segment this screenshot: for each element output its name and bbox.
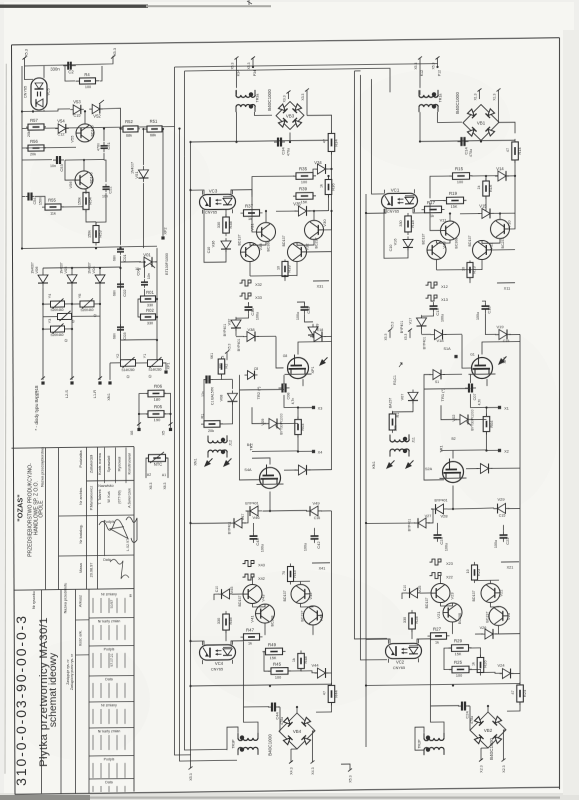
svg-text:V34: V34 — [314, 160, 322, 165]
capacitor C24 — [458, 705, 462, 707]
diode V54 — [55, 127, 69, 129]
svg-text:C03: C03 — [122, 332, 127, 340]
svg-text:V26: V26 — [480, 626, 487, 630]
svg-text:S20K460: S20K460 — [50, 333, 63, 337]
svg-text:X4.3: X4.3 — [311, 767, 315, 774]
svg-text:BYP401: BYP401 — [245, 501, 258, 505]
svg-text:C18: C18 — [317, 328, 324, 332]
svg-text:V06: V06 — [34, 266, 39, 274]
svg-text:R55: R55 — [48, 197, 56, 202]
svg-text:①: ① — [129, 593, 133, 598]
svg-text:BYP401: BYP401 — [423, 337, 427, 350]
wires transistor cluster middle — [265, 211, 267, 223]
terminal X3.3 a — [287, 90, 291, 93]
svg-text:V47: V47 — [241, 514, 245, 521]
svg-text:J12: J12 — [229, 440, 233, 446]
svg-text:Nr zmiany: Nr zmiany — [101, 592, 117, 596]
svg-text:BYP401: BYP401 — [223, 324, 227, 337]
title block name-grid verticals — [104, 448, 106, 484]
diode V17 BYP401 — [421, 315, 423, 329]
transistor V33 BC308 — [241, 242, 260, 261]
svg-text:V22: V22 — [499, 589, 504, 597]
svg-text:L2-S: L2-S — [65, 390, 69, 399]
capacitor C30 — [248, 303, 250, 307]
svg-text:V15: V15 — [479, 203, 487, 208]
svg-text:R14: R14 — [517, 147, 522, 155]
capacitor C34 — [274, 141, 278, 143]
svg-text:R38: R38 — [228, 221, 233, 229]
svg-text:①: ① — [64, 339, 68, 343]
saturable core X22 — [430, 572, 442, 578]
svg-text:X1.3: X1.3 — [493, 93, 497, 100]
transistor V55 BD140 — [76, 124, 94, 142]
svg-text:V21: V21 — [436, 611, 441, 619]
svg-text:10: 10 — [277, 266, 281, 270]
varistor Y3 S20K460 — [51, 326, 65, 332]
svg-text:Nr katalog.: Nr katalog. — [78, 524, 83, 543]
svg-text:C2: C2 — [68, 69, 74, 74]
svg-text:C23: C23 — [439, 537, 444, 545]
svg-text:C8: C8 — [254, 367, 258, 371]
svg-text:C16: C16 — [314, 516, 321, 520]
svg-text:C01: C01 — [122, 254, 127, 262]
svg-text:V20: V20 — [506, 612, 511, 620]
resistor R56 — [26, 147, 46, 149]
thyristor V09 BYT30PI1000 — [264, 422, 282, 424]
svg-text:S1A: S1A — [443, 347, 451, 351]
svg-text:V27: V27 — [425, 514, 432, 518]
svg-text:X5.3: X5.3 — [25, 49, 29, 57]
svg-text:R17: R17 — [427, 200, 436, 205]
svg-text:V17: V17 — [409, 318, 413, 325]
wire top bus 2 — [185, 68, 391, 95]
svg-text:R35: R35 — [299, 166, 308, 171]
svg-text:X5.3: X5.3 — [247, 62, 251, 69]
terminal L3-T — [41, 381, 44, 384]
svg-text:470u: 470u — [470, 716, 474, 724]
svg-text:X43: X43 — [258, 563, 265, 567]
svg-text:S4A: S4A — [244, 468, 252, 472]
capacitor C52 — [105, 184, 107, 187]
terminal K5.3 stub — [225, 351, 229, 354]
svg-text:X3: X3 — [318, 406, 323, 410]
svg-text:15K: 15K — [455, 652, 462, 656]
svg-text:V35: V35 — [293, 201, 301, 206]
diode V35 — [295, 210, 311, 212]
svg-text:100u: 100u — [261, 544, 265, 552]
svg-text:BD137: BD137 — [238, 596, 242, 607]
svg-text:1k: 1k — [292, 658, 296, 662]
svg-text:X1.3: X1.3 — [474, 93, 478, 100]
svg-text:V05: V05 — [63, 266, 68, 274]
diode V27 BYP401 — [414, 522, 430, 524]
wire rails middle-right gap — [355, 71, 388, 639]
resistor R48 — [300, 650, 302, 671]
svg-text:330: 330 — [217, 222, 221, 228]
wires VB1 out — [499, 122, 516, 133]
svg-text:1k: 1k — [248, 217, 252, 221]
svg-text:Ilość ark.: Ilość ark. — [78, 630, 83, 646]
svg-text:C24: C24 — [465, 711, 470, 719]
svg-text:330n: 330n — [50, 66, 60, 71]
resistor R34 — [331, 130, 333, 154]
inductor J12 — [208, 440, 227, 443]
title block signatures — [99, 519, 128, 539]
varistor Y6 S20K460 — [80, 301, 94, 307]
svg-text:R18: R18 — [410, 220, 415, 228]
svg-text:C1 BA157R: C1 BA157R — [211, 386, 215, 405]
svg-text:①: ① — [148, 375, 152, 379]
svg-text:BD137: BD137 — [282, 235, 286, 246]
svg-text:C12: C12 — [487, 306, 492, 314]
diode V33b — [310, 335, 326, 337]
connector arrows KN1 right — [384, 458, 396, 471]
terminal X2.3 a — [480, 748, 482, 760]
svg-text:V37: V37 — [228, 319, 232, 326]
transistor V12 BD137 — [473, 240, 492, 259]
svg-text:R47: R47 — [246, 627, 255, 632]
svg-text:C13: C13 — [435, 308, 440, 316]
resistor R36 — [328, 176, 330, 197]
svg-text:V44: V44 — [311, 662, 319, 667]
svg-text:R05: R05 — [154, 404, 163, 409]
svg-text:150k: 150k — [78, 197, 82, 205]
transistor V42 BD137 — [291, 584, 310, 603]
svg-text:XP2: XP2 — [164, 227, 168, 234]
diode V37 BYP401 — [235, 317, 237, 331]
svg-text:100u: 100u — [445, 543, 449, 551]
optocoupler VC3 — [200, 194, 236, 209]
svg-text:BD140: BD140 — [90, 172, 94, 183]
terminal XP2 — [162, 129, 164, 236]
svg-text:X5.3: X5.3 — [189, 773, 193, 780]
svg-text:K12: K12 — [420, 70, 424, 76]
svg-text:V53: V53 — [73, 99, 81, 104]
svg-text:G1: G1 — [470, 352, 475, 356]
terminal X5.3 P34 — [251, 56, 255, 59]
thyristor V01 BT130F/1000 — [139, 261, 157, 263]
svg-text:V55: V55 — [70, 135, 75, 143]
terminal X5 — [169, 428, 172, 431]
resistor R14 — [514, 139, 516, 163]
resistor R27 — [428, 635, 450, 637]
svg-text:X5.3: X5.3 — [113, 48, 117, 56]
svg-text:VC3: VC3 — [209, 188, 218, 193]
diode V53 — [70, 108, 84, 110]
title block outline — [12, 447, 135, 449]
svg-text:V13: V13 — [442, 241, 447, 249]
svg-text:1k: 1k — [248, 641, 252, 645]
resistor R01 — [139, 298, 158, 300]
svg-text:R39: R39 — [299, 186, 308, 191]
svg-text:BC237: BC237 — [315, 238, 319, 249]
svg-text:R51: R51 — [150, 119, 158, 124]
diode V28 BYP401 — [432, 508, 448, 510]
svg-text:BD137: BD137 — [425, 597, 429, 608]
svg-text:Nr karty zmian: Nr karty zmian — [98, 619, 121, 623]
capacitor C01 — [120, 246, 122, 249]
transistor V11 BC308 — [441, 221, 460, 240]
svg-text:V30: V30 — [322, 219, 327, 227]
svg-text:C53: C53 — [59, 164, 64, 172]
svg-text:X23: X23 — [446, 562, 453, 566]
diode V52 — [89, 108, 103, 110]
svg-text:Nr archiw.: Nr archiw. — [78, 487, 83, 505]
svg-text:Data: Data — [105, 677, 112, 681]
svg-text:10: 10 — [462, 267, 466, 271]
svg-text:R43: R43 — [292, 570, 297, 578]
svg-text:20k: 20k — [30, 152, 36, 156]
terminal X2 — [498, 449, 501, 452]
svg-text:VC4: VC4 — [215, 661, 224, 666]
transistor V41 BC308 — [256, 604, 275, 623]
svg-text:330: 330 — [147, 303, 153, 307]
wires varistor row 2 — [110, 362, 121, 364]
transformer TR1a — [419, 95, 438, 98]
svg-text:R44: R44 — [334, 690, 339, 698]
diode V45 — [219, 593, 233, 595]
svg-text:97.07.21: 97.07.21 — [110, 653, 114, 666]
svg-text:1k: 1k — [472, 662, 476, 666]
svg-text:R03: R03 — [301, 424, 305, 431]
svg-text:100: 100 — [301, 180, 307, 184]
svg-text:Sprawdził: Sprawdził — [107, 456, 111, 473]
resistor R25 — [449, 668, 472, 670]
resistor R18 — [407, 213, 409, 235]
svg-text:C08: C08 — [287, 393, 291, 400]
svg-text:R45: R45 — [273, 661, 282, 666]
transistor V30 BC237 — [305, 220, 324, 239]
svg-text:R24: R24 — [522, 689, 527, 697]
svg-text:X5.3: X5.3 — [414, 62, 418, 69]
svg-text:C22: C22 — [505, 537, 510, 545]
transistor V22 BD137 — [481, 583, 500, 602]
resistor R13 — [469, 261, 471, 280]
transformer TR2P — [424, 738, 444, 741]
svg-text:Data: Data — [103, 558, 111, 562]
resistor R02 — [139, 316, 158, 318]
terminal X5.3 bottom middle — [190, 766, 192, 768]
svg-text:C43: C43 — [255, 538, 260, 546]
svg-text:VB2: VB2 — [484, 728, 493, 733]
svg-text:VB1: VB1 — [477, 120, 486, 125]
svg-text:L3-T: L3-T — [36, 389, 40, 398]
capacitor C44 — [268, 706, 272, 708]
svg-text:X3.3: X3.3 — [283, 95, 287, 102]
bridge rectifier VB4 — [279, 713, 315, 749]
terminal X6 — [137, 428, 140, 431]
svg-text:V32: V32 — [305, 243, 310, 251]
svg-text:Kontr. norma: Kontr. norma — [98, 452, 102, 475]
terminal X21 — [501, 561, 519, 563]
svg-text:S14K280: S14K280 — [148, 368, 161, 372]
transistor V43 BD137 — [243, 584, 262, 603]
svg-text:X42: X42 — [258, 577, 265, 581]
svg-text:10: 10 — [466, 569, 470, 573]
svg-text:V28: V28 — [440, 513, 448, 518]
svg-text:C10: C10 — [389, 245, 393, 252]
svg-text:NTC: NTC — [154, 461, 163, 466]
svg-text:Arkusz: Arkusz — [78, 595, 83, 607]
svg-text:(077-90): (077-90) — [118, 490, 122, 504]
svg-text:47: 47 — [506, 148, 510, 152]
title block verticals section B — [41, 590, 43, 794]
svg-text:XP1: XP1 — [311, 366, 315, 373]
svg-text:V11: V11 — [440, 217, 448, 222]
svg-text:C07: C07 — [473, 393, 477, 400]
svg-text:100u: 100u — [296, 312, 300, 320]
svg-text:C02: C02 — [122, 289, 127, 297]
terminal X1.3 b — [497, 88, 501, 91]
svg-text:P34: P34 — [253, 70, 257, 76]
resistor R2 middle — [221, 357, 223, 376]
svg-text:X6.3: X6.3 — [163, 482, 167, 489]
svg-text:20k: 20k — [208, 429, 214, 433]
svg-text:R02: R02 — [146, 308, 154, 313]
svg-text:TR2P: TR2P — [418, 739, 422, 749]
svg-text:VB3: VB3 — [286, 113, 295, 118]
svg-text:68n: 68n — [113, 255, 117, 261]
svg-text:S14K280: S14K280 — [121, 368, 134, 372]
svg-text:R29: R29 — [454, 638, 463, 643]
svg-text:Zatwierdził: Zatwierdził — [90, 455, 94, 473]
varistor Y1 S14K280 — [148, 360, 163, 367]
resistor R29 — [449, 647, 472, 649]
varistor Y5 S20K460 — [58, 313, 72, 319]
diode V18 BYP401 — [431, 333, 447, 335]
svg-text:100: 100 — [219, 363, 223, 369]
svg-text:20k: 20k — [27, 131, 31, 137]
svg-text:V19: V19 — [496, 324, 504, 329]
svg-text:X32: X32 — [255, 283, 262, 287]
svg-text:10n: 10n — [102, 194, 108, 198]
MOSFET XP1 right — [472, 357, 493, 378]
resistor R26 — [480, 655, 482, 676]
svg-text:V41: V41 — [250, 615, 255, 623]
svg-text:V49: V49 — [312, 500, 320, 505]
svg-text:C04: C04 — [136, 268, 141, 276]
diode V39 — [312, 324, 314, 338]
svg-text:R01: R01 — [146, 290, 154, 295]
transistor V21 BC308 — [443, 603, 462, 622]
diode V19 — [495, 333, 511, 335]
svg-text:100: 100 — [275, 675, 281, 679]
svg-text:X6: X6 — [130, 431, 134, 436]
optocoupler VC1 — [382, 193, 418, 208]
svg-text:V09: V09 — [260, 418, 265, 426]
svg-text:V45: V45 — [230, 587, 234, 594]
terminal L1-R — [98, 381, 101, 384]
wires varistor network — [42, 287, 44, 380]
svg-text:BC237: BC237 — [501, 237, 505, 248]
terminal X5.3 left-top second — [111, 55, 115, 58]
sheet frame — [12, 38, 560, 45]
svg-text:X11: X11 — [504, 286, 510, 290]
svg-text:V33: V33 — [258, 243, 263, 251]
resistor R1 right 20k — [392, 411, 394, 433]
connector XN1 left — [108, 381, 111, 384]
resistor R17 — [422, 208, 445, 210]
svg-text:S2A: S2A — [425, 467, 433, 471]
svg-text:TR3P: TR3P — [232, 739, 236, 749]
diode V26 — [481, 633, 497, 635]
svg-text:CNY65: CNY65 — [211, 667, 223, 671]
svg-text:V10: V10 — [507, 220, 512, 228]
svg-text:B40C1000: B40C1000 — [489, 738, 494, 760]
bridge rectifier VB1 — [463, 104, 499, 140]
resistor R57 — [26, 126, 46, 128]
svg-text:Zastąpiony przez rys. nr: Zastąpiony przez rys. nr — [70, 653, 74, 690]
diode V24 — [500, 672, 514, 674]
wire rail 3 left of middle column — [185, 155, 228, 750]
capacitor C42 — [314, 532, 316, 536]
svg-text:P12: P12 — [438, 70, 442, 76]
svg-text:68n: 68n — [113, 333, 117, 339]
svg-text:R4: R4 — [84, 72, 90, 77]
MOSFET S4A middle bottom — [260, 467, 281, 488]
svg-text:20k: 20k — [394, 425, 398, 431]
svg-text:R04: R04 — [490, 421, 494, 428]
capacitor C14 — [458, 141, 462, 143]
wires right lower middle — [470, 648, 481, 658]
resistor R44 — [331, 682, 333, 705]
svg-text:P.Maniakiewicz: P.Maniakiewicz — [90, 486, 94, 511]
svg-text:V51: V51 — [134, 171, 139, 179]
svg-text:47: 47 — [511, 690, 515, 694]
svg-text:XN1: XN1 — [107, 393, 111, 400]
resistor R24 — [519, 682, 521, 705]
connector arrows XN1 middle — [202, 456, 214, 469]
resistor R52 — [121, 128, 140, 130]
svg-text:68n: 68n — [113, 290, 117, 296]
diode V46 BYP401 — [246, 510, 262, 512]
svg-text:15K: 15K — [301, 200, 308, 204]
svg-text:R56: R56 — [30, 139, 38, 144]
terminal X5.3 K34 — [235, 56, 239, 59]
resistor R35 — [293, 175, 316, 177]
svg-text:BD140: BD140 — [91, 125, 95, 136]
svg-text:C10: C10 — [207, 247, 211, 254]
svg-text:CNY65: CNY65 — [205, 210, 217, 214]
svg-text:Nazwisko: Nazwisko — [98, 484, 113, 488]
saturable core X13 — [426, 295, 438, 301]
resistor R54 — [85, 189, 87, 212]
svg-text:C15: C15 — [74, 114, 81, 118]
title block section A rows — [87, 479, 135, 482]
svg-text:V52: V52 — [93, 113, 101, 118]
optocoupler VC2 — [386, 643, 422, 658]
svg-text:BA157: BA157 — [389, 398, 393, 408]
capacitor C32 — [304, 303, 306, 307]
resistor R55 — [42, 206, 64, 208]
svg-text:S1: S1 — [435, 380, 439, 384]
terminal X5.3 P12 — [436, 56, 440, 59]
svg-text:K5.3: K5.3 — [228, 343, 232, 350]
resistor R4 — [65, 66, 75, 81]
diode S1 right — [429, 373, 445, 375]
svg-text:Masa: Masa — [78, 562, 83, 573]
wire top row left block — [25, 58, 34, 80]
svg-text:X5.3: X5.3 — [349, 775, 353, 782]
svg-text:V56: V56 — [68, 181, 73, 189]
thyristor V02 BYT30PI1000 — [455, 418, 473, 420]
svg-text:BYP401: BYP401 — [400, 321, 404, 334]
svg-text:VB4: VB4 — [293, 729, 302, 734]
svg-text:BD137: BD137 — [468, 236, 472, 247]
title block verticals section A — [45, 448, 47, 590]
svg-text:X3.3: X3.3 — [301, 93, 305, 100]
thermistor NTC — [147, 457, 168, 459]
